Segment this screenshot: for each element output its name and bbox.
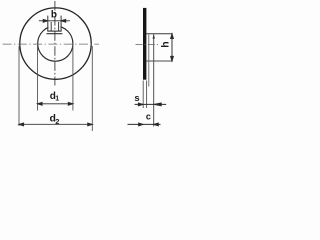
svg-text:1: 1 [55,95,59,102]
horizontal centerline (front view) [3,43,100,45]
dimension b line [39,19,70,22]
svg-text:2: 2 [55,117,59,126]
slot gap erase at top of bore [48,22,60,31]
svg-text:c: c [146,112,151,122]
nose end-face right edge [58,22,60,31]
nose slot right wall / b extension [60,16,62,31]
s extension line right [146,81,148,109]
dimension d2 line [19,123,92,126]
s extension line left [142,81,144,109]
dimension h line [171,34,174,61]
d2 extension line left [18,46,20,126]
d1 extension line left [37,45,39,111]
d1 extension line right [72,45,74,111]
nose end-face left edge [50,22,52,31]
nose slot left wall / b extension [47,16,49,31]
washer bore circle d1 [38,26,73,61]
nose far edge (behind plate) [148,34,150,86]
nose bend line [47,33,63,35]
dimension d1 line [38,102,73,105]
d2 extension line right [91,46,93,131]
svg-text:b: b [51,10,57,21]
side view plate (section, solid) [143,8,146,80]
nose bottom edge / h bottom extension [147,60,173,62]
nose right edge / c right extension [153,34,155,127]
dimension s line [135,103,167,106]
side view centerline [136,44,159,46]
dimension c line [128,123,161,126]
svg-text:s: s [134,93,139,104]
washer outer circle d2 [20,8,91,79]
nose top edge / h top extension [146,33,172,35]
small up arrow on nose edge [153,34,155,38]
svg-text:h: h [160,41,172,47]
nose end-face bottom [47,30,61,32]
vertical centerline (front view) [54,1,56,86]
